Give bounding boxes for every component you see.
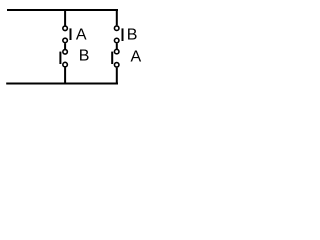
svg-text:A: A [76, 27, 87, 44]
svg-text:B: B [127, 27, 138, 44]
wire: left branch from top rail to contact A [64, 10, 66, 26]
contact A (right branch, lower) [111, 49, 119, 67]
wire: right branch between contact B and contact A [116, 43, 118, 49]
wire: right branch from contact A to bottom rail [116, 68, 118, 85]
top rail wire [7, 9, 118, 11]
bottom rail wire [6, 83, 118, 85]
svg-text:A: A [131, 49, 142, 66]
contact B (right branch, upper) [114, 26, 123, 43]
contact B (left branch, lower) [59, 50, 67, 67]
contact A (left branch, upper) [63, 26, 72, 43]
wire: left branch between contact A and contact B [64, 43, 66, 49]
wire: right branch from top rail to contact B [116, 9, 118, 25]
svg-text:B: B [79, 48, 90, 65]
wire: left branch from contact B to bottom rail [64, 68, 66, 85]
